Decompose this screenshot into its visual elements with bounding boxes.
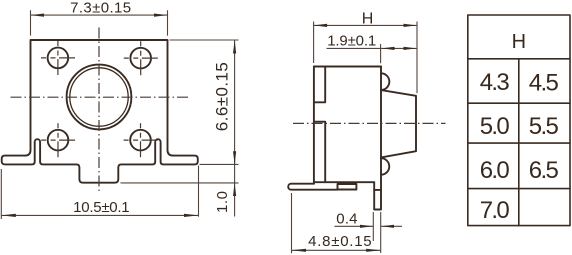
svg-text:1.0: 1.0 [214, 191, 231, 213]
svg-text:5.5: 5.5 [529, 113, 559, 140]
svg-text:10.5±0.1: 10.5±0.1 [73, 199, 129, 216]
svg-text:5.0: 5.0 [480, 113, 510, 140]
svg-text:H: H [512, 31, 526, 53]
svg-text:6.6±0.15: 6.6±0.15 [213, 62, 232, 131]
svg-text:7.3±0.15: 7.3±0.15 [70, 0, 131, 17]
svg-text:H: H [362, 10, 374, 27]
svg-text:6.5: 6.5 [529, 157, 559, 184]
svg-text:4.8±0.15: 4.8±0.15 [308, 233, 372, 250]
svg-text:6.0: 6.0 [480, 157, 510, 184]
svg-text:4.3: 4.3 [480, 69, 510, 96]
svg-text:7.0: 7.0 [480, 197, 510, 224]
svg-text:0.4: 0.4 [336, 210, 357, 227]
svg-text:4.5: 4.5 [529, 69, 559, 96]
svg-text:1.9±0.1: 1.9±0.1 [327, 33, 376, 50]
